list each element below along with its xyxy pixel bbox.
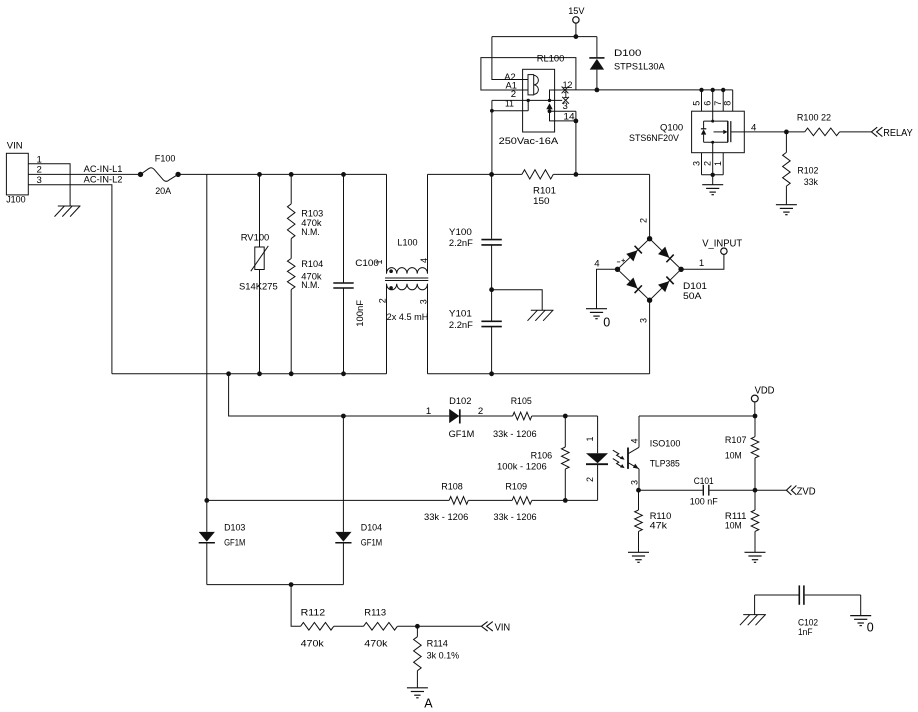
svg-text:0: 0 — [867, 620, 874, 634]
svg-text:8: 8 — [723, 101, 733, 106]
wire R112 R113 — [334, 625, 364, 627]
wire bridge pin1 to V_INPUT — [681, 254, 724, 269]
svg-text:3: 3 — [638, 318, 648, 323]
wire D103 D104 cathodes — [207, 582, 344, 587]
transistor Q100 — [629, 88, 744, 177]
svg-text:2: 2 — [478, 406, 483, 417]
wire Y caps midpoint — [489, 245, 494, 321]
svg-text:33k - 1206: 33k - 1206 — [424, 512, 468, 523]
resistor R102 — [783, 132, 819, 205]
svg-text:VIN: VIN — [7, 140, 23, 151]
ground 0 bridge — [586, 309, 610, 330]
svg-text:2x 4.5 mH: 2x 4.5 mH — [387, 312, 429, 323]
svg-text:2: 2 — [585, 477, 595, 482]
svg-text:D103: D103 — [224, 523, 245, 534]
wire to relay coil A2 — [492, 37, 528, 80]
wire R113 to VIN port — [397, 624, 481, 629]
svg-text:1: 1 — [426, 406, 431, 417]
svg-text:VIN: VIN — [495, 622, 511, 633]
wire top bus right — [428, 173, 522, 175]
svg-text:AC-IN-L2: AC-IN-L2 — [84, 175, 123, 186]
svg-text:470k: 470k — [301, 638, 324, 649]
svg-text:4: 4 — [419, 258, 429, 263]
svg-text:R106: R106 — [531, 450, 553, 461]
wire relay A1 frame — [481, 58, 576, 90]
svg-text:STS6NF20V: STS6NF20V — [629, 133, 680, 144]
capacitor Y100 — [449, 174, 502, 249]
svg-text:GF1M: GF1M — [449, 429, 475, 440]
svg-text:2: 2 — [638, 218, 648, 223]
svg-text:ZVD: ZVD — [797, 486, 816, 498]
wire to R108 — [204, 498, 449, 503]
svg-text:L100: L100 — [397, 238, 417, 249]
svg-text:150: 150 — [533, 196, 550, 207]
svg-text:2.2nF: 2.2nF — [449, 320, 473, 331]
svg-text:Y101: Y101 — [449, 309, 472, 320]
svg-text:Y100: Y100 — [449, 227, 472, 238]
svg-text:R102: R102 — [797, 165, 818, 176]
wire R109 to opto — [532, 498, 598, 503]
svg-text:33k: 33k — [804, 177, 818, 188]
svg-text:R107: R107 — [725, 435, 747, 446]
svg-text:7: 7 — [713, 101, 723, 106]
inductor L100 — [374, 174, 429, 373]
svg-text:2: 2 — [703, 161, 713, 166]
chassis ground mid — [528, 310, 554, 321]
varistor RV100 — [239, 174, 278, 373]
resistor R113 — [364, 607, 398, 649]
terminal V_INPUT — [702, 239, 742, 255]
capacitor Y101 — [449, 309, 502, 374]
wire C101 to ZVD — [710, 488, 787, 493]
svg-text:5: 5 — [691, 101, 701, 106]
svg-text:47k: 47k — [650, 521, 668, 532]
svg-text:2: 2 — [377, 298, 387, 303]
svg-text:RV100: RV100 — [241, 233, 270, 244]
svg-text:R104: R104 — [301, 259, 324, 270]
svg-text:C101: C101 — [694, 476, 714, 487]
svg-text:3: 3 — [691, 161, 701, 166]
svg-text:10M: 10M — [725, 451, 742, 462]
relay contact X 12 — [562, 87, 569, 94]
svg-text:4: 4 — [594, 258, 600, 269]
svg-text:STPS1L30A: STPS1L30A — [614, 62, 665, 73]
wire bottom AC bus — [112, 371, 387, 376]
svg-text:33k - 1206: 33k - 1206 — [494, 512, 537, 523]
svg-text:RELAY: RELAY — [883, 127, 912, 139]
wire relay contact to Q100 drain — [562, 89, 733, 91]
svg-text:100nF: 100nF — [355, 300, 366, 327]
svg-text:3: 3 — [418, 299, 428, 304]
svg-text:250Vac-16A: 250Vac-16A — [499, 136, 559, 147]
wire relay pin14 to R101 right — [575, 121, 577, 174]
diode D102 — [449, 396, 484, 440]
wire bridge pin2 — [649, 174, 651, 238]
svg-text:4: 4 — [751, 123, 757, 134]
svg-text:D102: D102 — [449, 396, 471, 407]
svg-text:D104: D104 — [361, 523, 383, 534]
svg-text:1: 1 — [585, 436, 595, 441]
svg-text:R114: R114 — [427, 638, 449, 649]
resistor R101 — [522, 170, 556, 207]
wire R101 to bridge — [489, 172, 649, 177]
chassis ground J100 — [55, 206, 81, 217]
wire top AC bus — [178, 172, 386, 177]
svg-text:AC-IN-L1: AC-IN-L1 — [84, 164, 123, 175]
wire opto collector to VDD — [639, 414, 757, 419]
port VIN — [481, 622, 510, 634]
diode D103 — [199, 500, 246, 584]
resistor R111 — [725, 490, 759, 552]
svg-text:1: 1 — [713, 161, 723, 166]
svg-text:D100: D100 — [614, 48, 641, 59]
wire bridge pin3 — [649, 300, 651, 374]
optocoupler ISO100 transistor — [628, 416, 639, 490]
resistor R105 — [493, 396, 537, 440]
svg-text:R108: R108 — [441, 482, 463, 493]
resistor R108 — [424, 482, 468, 523]
svg-text:TLP385: TLP385 — [650, 459, 680, 470]
svg-text:3k 0.1%: 3k 0.1% — [427, 650, 460, 661]
svg-text:20A: 20A — [155, 186, 172, 197]
bridge rectifier D101 — [594, 218, 707, 323]
svg-text:RL100: RL100 — [537, 54, 565, 65]
optocoupler light arrows — [613, 450, 625, 468]
resistor R104 — [287, 239, 323, 374]
svg-text:470k: 470k — [364, 638, 387, 649]
svg-text:J100: J100 — [6, 195, 26, 206]
ground R102 — [776, 205, 797, 215]
power 15V — [568, 6, 585, 37]
relay contact 12 stub — [548, 90, 562, 102]
port RELAY — [871, 127, 912, 139]
svg-text:S14K275: S14K275 — [239, 282, 278, 293]
wire bridge pin4 to ground — [597, 269, 618, 308]
wire to chassis ground mid — [492, 290, 543, 311]
port ZVD — [786, 486, 816, 498]
wire AC-IN-L2 — [28, 175, 122, 374]
resistor R107 — [725, 416, 759, 490]
svg-text:R112: R112 — [301, 607, 326, 618]
wire AC to D102 row — [229, 374, 450, 419]
svg-text:4: 4 — [629, 438, 639, 443]
svg-text:F100: F100 — [155, 154, 176, 165]
ground R111 — [745, 552, 766, 562]
svg-text:1nF: 1nF — [798, 627, 813, 638]
svg-text:50A: 50A — [683, 291, 702, 302]
resistor R103 — [287, 174, 323, 238]
connector J100 — [6, 140, 42, 205]
optocoupler ISO100 LED — [585, 416, 681, 500]
chassis ground C102 — [740, 595, 766, 625]
relay RL100 — [499, 54, 576, 147]
svg-text:N.M.: N.M. — [301, 227, 320, 238]
wire R108 to R109 — [468, 499, 512, 501]
wire R105 to opto — [532, 414, 598, 419]
resistor R114 — [414, 626, 460, 688]
relay contact common wires pins 2 11 — [490, 99, 562, 175]
ground Q100 source — [702, 175, 723, 195]
svg-text:100 nF: 100 nF — [690, 497, 718, 508]
ground A — [407, 688, 433, 711]
fuse F100 — [138, 154, 181, 197]
svg-text:A: A — [424, 696, 433, 710]
svg-text:6: 6 — [703, 101, 713, 106]
svg-text:R109: R109 — [505, 482, 527, 493]
wire vertical to lower rectifier row — [206, 174, 208, 500]
capacitor C102 — [755, 585, 861, 638]
wire 15V rail — [492, 34, 597, 39]
wire pin1 to chassis ground — [28, 164, 70, 206]
wire D102 to R105 — [460, 415, 513, 417]
wire to R112 — [291, 585, 301, 627]
diode D100 — [589, 37, 665, 93]
svg-text:15V: 15V — [568, 6, 585, 17]
svg-text:10M: 10M — [725, 521, 742, 532]
capacitor C101 — [690, 476, 718, 508]
wire bottom AC bus right — [428, 371, 650, 376]
svg-text:3: 3 — [629, 480, 639, 485]
svg-text:2.2nF: 2.2nF — [449, 238, 473, 249]
resistor R110 — [635, 490, 672, 552]
svg-text:33k - 1206: 33k - 1206 — [493, 429, 537, 440]
resistor R100 — [786, 112, 871, 135]
svg-text:R105: R105 — [511, 396, 532, 407]
wire AC-IN-L1 — [28, 164, 140, 175]
ground 0 C102 — [850, 595, 874, 634]
svg-text:GF1M: GF1M — [361, 537, 382, 548]
resistor R106 — [497, 416, 569, 500]
svg-text:1: 1 — [699, 258, 704, 269]
svg-text:1: 1 — [374, 259, 384, 264]
svg-text:VDD: VDD — [755, 386, 775, 397]
resistor R109 — [494, 482, 537, 523]
relay contact X 3 — [562, 97, 569, 104]
svg-text:0: 0 — [603, 315, 610, 329]
svg-text:R100 22: R100 22 — [797, 112, 831, 123]
capacitor C100 — [333, 174, 379, 373]
svg-text:100k - 1206: 100k - 1206 — [497, 462, 547, 473]
relay moving arm pin 14 — [546, 103, 578, 123]
ground R110 — [628, 552, 649, 562]
wire Q100 gate node — [744, 123, 789, 135]
svg-text:GF1M: GF1M — [224, 537, 245, 548]
power VDD — [751, 386, 774, 416]
svg-text:R113: R113 — [364, 607, 386, 618]
svg-text:V_INPUT: V_INPUT — [702, 239, 742, 250]
diode D104 — [335, 416, 382, 585]
svg-text:N.M.: N.M. — [301, 280, 320, 291]
resistor R112 — [301, 607, 334, 649]
wire opto emitter rail — [636, 488, 702, 493]
svg-text:ISO100: ISO100 — [650, 438, 681, 449]
